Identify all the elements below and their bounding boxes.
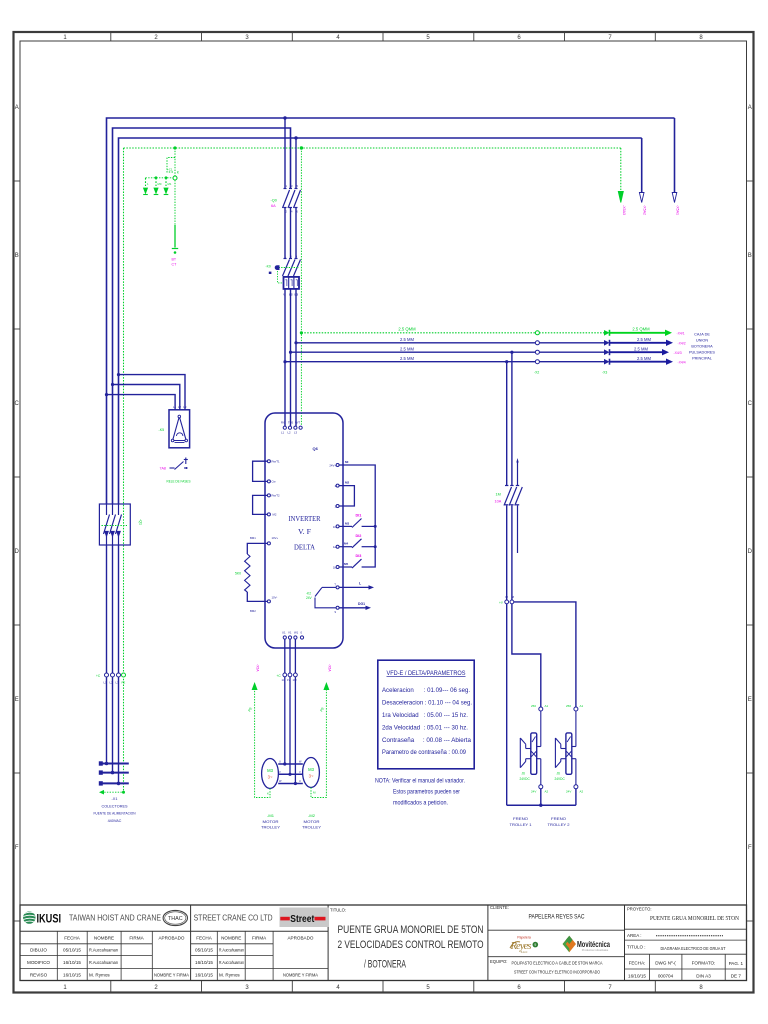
junction PE bus (300, 331, 303, 334)
ground branch horizontal (146, 177, 174, 179)
svg-text:Productos industriales: Productos industriales (582, 948, 609, 952)
svg-text:10V+: 10V+ (272, 536, 279, 540)
svg-text:FIRMA: FIRMA (252, 936, 267, 941)
label b (269, 272, 272, 274)
svg-text:EQUIPO:: EQUIPO: (490, 959, 507, 964)
wire L3 lower vertical (118, 545, 120, 783)
svg-text:REVISO: REVISO (30, 972, 48, 977)
svg-text:-X5A2: -X5A2 (643, 205, 647, 215)
svg-text:-M2: -M2 (308, 813, 316, 818)
svg-text:BOTONERA: BOTONERA (691, 345, 713, 349)
svg-text:2.5 MM: 2.5 MM (637, 337, 651, 342)
svg-text:Parametro de contraseña : 00.0: Parametro de contraseña : 00.09 (382, 749, 467, 756)
svg-text:FORMATO:: FORMATO: (692, 961, 716, 966)
junction node PE x175 (173, 146, 176, 149)
motor wire V lower (289, 677, 291, 775)
wire L1 right drop (674, 118, 676, 192)
resistor R1 zigzag (245, 554, 250, 592)
brake wire B lower (511, 506, 513, 601)
brake 2 wire bottom (575, 789, 577, 805)
contactor K0M coil symbol (275, 266, 279, 270)
svg-text:10V-: 10V- (272, 596, 278, 600)
connector circle brake A (505, 600, 509, 604)
triangle inside K5 (173, 417, 187, 441)
svg-text:10A: 10A (495, 500, 502, 504)
svg-text:F: F (748, 845, 752, 851)
overload relay F0 box (284, 277, 300, 289)
motor feed wire U (284, 639, 286, 673)
label motor M1 text (261, 813, 280, 830)
svg-text:VFD-E / DELTA/PARAMETROS: VFD-E / DELTA/PARAMETROS (387, 670, 466, 677)
svg-text:440VAC: 440VAC (108, 819, 122, 823)
svg-text:-X1: -X1 (112, 797, 118, 801)
wire V3 x296 (295, 138, 297, 189)
svg-text:-X4/2: -X4/2 (678, 342, 686, 346)
brake feed wire A (506, 362, 508, 485)
svg-text:L3: L3 (116, 681, 120, 685)
svg-text:-X5A1: -X5A1 (676, 205, 680, 215)
svg-text:L2: L2 (110, 681, 114, 685)
brake 1 connector bottom (539, 785, 543, 789)
connector circle node K (173, 176, 177, 180)
svg-text:CT: CT (172, 263, 178, 267)
junction dot ground branch 1 (155, 176, 158, 179)
THAC oval logo (163, 910, 187, 925)
svg-text:T: T (334, 583, 336, 587)
svg-text:1a: 1a (333, 545, 337, 549)
svg-text:FECHA:: FECHA: (629, 961, 646, 966)
wire PE green dashed bus (124, 147, 621, 149)
svg-text:V1: V1 (288, 631, 292, 635)
svg-text:M2: M2 (273, 513, 277, 517)
wire L2 lower vertical (112, 545, 114, 773)
svg-text:A: A (748, 105, 752, 111)
svg-text:APROBADO: APROBADO (287, 936, 313, 941)
svg-text:-X5A: -X5A (256, 664, 260, 672)
svg-text:M3: M3 (345, 521, 349, 525)
motor link U (278, 763, 303, 765)
K0M coil drop dashed (278, 271, 284, 283)
wire PE right drop (620, 148, 622, 190)
svg-text:DIAGRAMA ELECTRICO DE GRUA 5T: DIAGRAMA ELECTRICO DE GRUA 5T (661, 946, 726, 952)
svg-text:6A: 6A (271, 204, 276, 208)
svg-text:STREET CON TROLLEY ELETRICO IN: STREET CON TROLLEY ELETRICO INCORPORADO (514, 970, 600, 976)
junction dot tap L1 (105, 393, 108, 396)
svg-text:M3: M3 (267, 768, 273, 773)
collector bar 1 (102, 763, 129, 765)
svg-text:24VDC: 24VDC (555, 777, 566, 781)
svg-text:/ BOTONERA: / BOTONERA (364, 959, 406, 971)
svg-text:DI2: DI2 (356, 534, 362, 538)
svg-text:3~: 3~ (309, 774, 314, 779)
svg-text:Rw/T1: Rw/T1 (272, 460, 281, 464)
svg-text:16/10/15: 16/10/15 (195, 960, 213, 965)
svg-text:C: C (15, 401, 20, 407)
motor M1 PE wire (255, 689, 270, 798)
svg-text:FRENO: FRENO (513, 816, 528, 821)
svg-text:-X4/4: -X4/4 (678, 361, 686, 365)
table 2 texts (195, 936, 319, 978)
brake stub C lower (517, 506, 519, 554)
Q1 linkage dashed (102, 525, 128, 527)
svg-text:BT: BT (172, 258, 177, 262)
contactor K0M pole 1 (283, 259, 290, 277)
arrow L1 right (672, 193, 677, 203)
svg-text:AREA :: AREA : (627, 933, 642, 938)
relay contact below K5 (170, 458, 188, 470)
ground subcircuit dashed drop (174, 148, 176, 176)
svg-text:R.Auccahuaman: R.Auccahuaman (219, 948, 244, 953)
svg-text:IKUSI: IKUSI (37, 911, 62, 925)
svg-text:7A8: 7A8 (160, 467, 166, 471)
label X1 collector text (94, 797, 136, 823)
svg-text:Aceleracion : 01.09--- 06: Aceleracion : 01.09--- 06 seg. (382, 687, 470, 694)
svg-text:U: U (279, 760, 281, 764)
svg-text:RELE DE FASES: RELE DE FASES (167, 480, 191, 484)
svg-text:B: B (15, 253, 19, 259)
ground electrode 3 (164, 178, 169, 195)
svg-text:NOMBRE Y FIRMA: NOMBRE Y FIRMA (283, 972, 319, 977)
wire tap L3 (119, 375, 186, 410)
svg-text:Rw/T2: Rw/T2 (272, 494, 281, 498)
svg-text:MOTOR: MOTOR (263, 819, 279, 824)
svg-text:S.A.C: S.A.C (521, 950, 528, 954)
svg-text:U: U (284, 293, 286, 297)
jumper right pins 2-3 (339, 486, 354, 506)
svg-text:L1: L1 (104, 681, 108, 685)
svg-text:M0: M0 (158, 182, 162, 186)
svg-text:DI3: DI3 (356, 554, 362, 558)
svg-text:DIBUJO: DIBUJO (30, 948, 47, 953)
svg-text:C: C (748, 401, 753, 407)
svg-text:Papelera: Papelera (517, 936, 531, 940)
bus connector circles X2 (535, 331, 539, 335)
svg-text:U: U (299, 779, 301, 783)
svg-text:UNION: UNION (696, 339, 708, 343)
svg-text:R.Auccahuaman: R.Auccahuaman (219, 960, 244, 965)
inverter top pin circles (283, 426, 286, 429)
svg-text:COLECTORES: COLECTORES (102, 804, 128, 808)
svg-text:2.5 MM: 2.5 MM (400, 337, 414, 342)
junction dot tap L3 (117, 373, 120, 376)
svg-text:CAJA DE: CAJA DE (694, 333, 710, 337)
brake feed wire B (511, 352, 513, 485)
svg-text:FIRMA: FIRMA (129, 936, 144, 941)
svg-text:F: F (15, 845, 19, 851)
svg-text:Contraseña : 00.08 --- Abi: Contraseña : 00.08 --- Abierta (382, 737, 472, 744)
contact DI2 (339, 539, 375, 548)
svg-text:L2: L2 (178, 405, 182, 409)
brake return bus (507, 804, 576, 806)
wire L1 top bus (107, 118, 675, 504)
motor link W (278, 783, 303, 785)
svg-text:B: B (748, 253, 752, 259)
svg-text:INVERTER: INVERTER (289, 514, 321, 523)
wire L3 top bus (119, 138, 642, 504)
breaker Q0 pole 1 (283, 189, 290, 209)
Q1 pole 2 (110, 504, 116, 545)
wire L1 lower vertical (106, 545, 108, 764)
svg-text:L3: L3 (295, 293, 299, 297)
motor M2 PE wire (311, 689, 326, 798)
svg-text:TROLLEY: TROLLEY (261, 824, 280, 829)
wire V2 x290.5 (290, 187, 292, 190)
IKUSI logo (23, 911, 61, 925)
svg-text:-K2: -K2 (306, 592, 311, 596)
svg-text:-X3: -X3 (602, 371, 607, 375)
overload hooks (285, 280, 287, 286)
svg-text:24V+: 24V+ (329, 464, 336, 468)
svg-text:FRENO: FRENO (551, 816, 566, 821)
svg-text:DE 7: DE 7 (731, 974, 742, 979)
contactor K0M pole 2 (288, 259, 295, 277)
svg-text:+C: +C (96, 674, 101, 678)
svg-text:FECHA: FECHA (64, 936, 81, 941)
svg-text:POLIPASTO ELECTRICO A CABLE DE: POLIPASTO ELECTRICO A CABLE DE 5TON MARC… (512, 961, 604, 967)
svg-text:250: 250 (531, 704, 536, 708)
svg-text:M. Rymos: M. Rymos (219, 972, 240, 977)
brake coil Y2 (555, 711, 576, 785)
svg-text:24V: 24V (306, 596, 313, 600)
contact DI1 (339, 519, 375, 528)
svg-text:5K0: 5K0 (235, 572, 241, 576)
svg-text:05/10/15: 05/10/15 (63, 948, 81, 953)
svg-text:2.5 QMM: 2.5 QMM (398, 327, 416, 332)
breaker Q0 pole 3 (294, 189, 301, 209)
svg-text:24VDC: 24VDC (520, 777, 531, 781)
svg-text:TROLLEY: TROLLEY (302, 824, 321, 829)
ground long drop wire (174, 180, 176, 225)
contactor K1M pole 1 (504, 486, 512, 506)
svg-text:L2: L2 (288, 431, 292, 435)
svg-text:Q6: Q6 (313, 446, 319, 451)
wire L out (339, 586, 369, 588)
motor wire U lower (284, 677, 286, 764)
arrow PE right green (618, 192, 623, 203)
svg-text:Estos parametros pueden ser: Estos parametros pueden ser (393, 789, 461, 796)
svg-text:CLIENTE:: CLIENTE: (490, 905, 509, 910)
svg-text:2.5 MM: 2.5 MM (400, 346, 414, 351)
svg-text:MOTOR: MOTOR (304, 819, 320, 824)
svg-text:E: E (748, 697, 752, 703)
contact DI3 (339, 559, 361, 568)
svg-text:FECHA: FECHA (196, 936, 213, 941)
motor M2 (303, 758, 320, 788)
svg-text:PUENTE GRUA MONORIEL DE 5TON: PUENTE GRUA MONORIEL DE 5TON (650, 915, 739, 922)
junction dot ground branch 2 (165, 176, 168, 179)
svg-text:DELTA: DELTA (294, 543, 316, 552)
svg-text:DI1: DI1 (356, 514, 362, 518)
wire V1 x285 (284, 118, 286, 189)
svg-text:NOMBRE Y FIRMA: NOMBRE Y FIRMA (154, 972, 190, 977)
svg-text:A: A (15, 105, 19, 111)
svg-text:modificados a peticion.: modificados a peticion. (393, 800, 448, 807)
inverter right pins (336, 464, 339, 467)
svg-text:R.Auccahuaman: R.Auccahuaman (89, 948, 118, 953)
svg-text:16/10/15: 16/10/15 (195, 972, 213, 977)
Movitecnica logo (563, 936, 611, 952)
svg-text:-Q0: -Q0 (271, 199, 277, 203)
svg-text:Movitécnica: Movitécnica (577, 939, 610, 949)
motor link V (278, 773, 303, 775)
svg-text:M4: M4 (344, 542, 348, 546)
svg-text:MODIFICO: MODIFICO (27, 960, 50, 965)
junction node L1 x285 (283, 116, 286, 119)
brake coil Y1 (520, 711, 541, 785)
potentiometer wire bottom (247, 592, 267, 601)
svg-text:T0S: T0S (288, 421, 293, 425)
Street logo (280, 908, 330, 928)
motor feed wire W (294, 639, 296, 673)
svg-text:2.5 QMM: 2.5 QMM (632, 327, 650, 332)
svg-text:16/10/15: 16/10/15 (63, 972, 81, 977)
motor M1 (262, 759, 279, 789)
internal jumper L-DG1 (315, 587, 336, 607)
svg-text:A2: A2 (545, 790, 549, 794)
title block frame (20, 905, 747, 981)
svg-text:BM2: BM2 (250, 609, 256, 613)
svg-text:M5: M5 (344, 562, 348, 566)
svg-text:2da Velocidad : 05.01 --- 30: 2da Velocidad : 05.01 --- 30 hz. (382, 725, 468, 732)
svg-text:1ra Velocidad : 05.00 --- 15: 1ra Velocidad : 05.00 --- 15 hz. (382, 712, 468, 719)
svg-text:NOMBRE: NOMBRE (221, 936, 241, 941)
svg-text:9: 9 (534, 943, 536, 947)
svg-text:2.5 MM: 2.5 MM (637, 356, 651, 361)
svg-text:STREET CRANE CO LTD: STREET CRANE CO LTD (194, 914, 273, 923)
wire PE left vertical (123, 148, 125, 792)
svg-text:PAG. 1: PAG. 1 (729, 961, 744, 966)
svg-text:M2: M2 (345, 481, 349, 485)
svg-text:J6: J6 (557, 772, 561, 776)
svg-text:-K5: -K5 (159, 428, 165, 432)
inverter name text (289, 514, 321, 552)
svg-text:A1: A1 (545, 704, 549, 708)
brake 2 connector bottom (574, 785, 578, 789)
connector circles motor feed (283, 673, 287, 677)
main disconnect Q1 box (99, 504, 130, 545)
bus right segments with arrows (610, 332, 667, 334)
contactor K1M pole 2 (509, 486, 517, 506)
svg-text:J6: J6 (522, 772, 526, 776)
wire PE V x301.4 (300, 148, 302, 426)
svg-text:DIN A3: DIN A3 (696, 973, 711, 978)
svg-text:V: V (279, 770, 281, 774)
caja de union text (689, 333, 715, 361)
junction dot tap L2 (111, 383, 114, 386)
brake 2 connector top (574, 707, 578, 711)
inverter U1 body (265, 413, 343, 648)
svg-text:1b: 1b (333, 566, 337, 570)
svg-text:FUENTE DE ALIMENTACION: FUENTE DE ALIMENTACION (94, 812, 136, 816)
svg-text:PRINCIPAL: PRINCIPAL (692, 357, 712, 361)
svg-text:TITULO:: TITULO: (330, 908, 346, 913)
connector circles X0 row (105, 673, 109, 677)
svg-text:250: 250 (566, 704, 571, 708)
svg-text:E: E (15, 697, 19, 703)
svg-text:-M1: -M1 (267, 813, 275, 818)
brake branch 1 wire (512, 604, 541, 707)
svg-text:L2: L2 (289, 293, 293, 297)
table 1 texts (27, 936, 190, 978)
svg-text:PULSADORES: PULSADORES (689, 351, 715, 355)
ground subcircuit loop stub (167, 158, 175, 173)
svg-text:2.5 MM: 2.5 MM (634, 346, 648, 351)
svg-text:24V: 24V (531, 790, 536, 794)
svg-text:TAIWAN HOIST AND CRANE: TAIWAN HOIST AND CRANE (69, 914, 161, 923)
collector PE dashed bar (102, 791, 124, 793)
svg-text:16/10/15: 16/10/15 (628, 973, 646, 978)
svg-text:R.Auccahuaman: R.Auccahuaman (89, 960, 118, 965)
Q1 pole 1 (104, 504, 110, 545)
breaker Q0 pole 2 (288, 189, 295, 209)
svg-text:K: K (267, 792, 269, 796)
svg-text:-X5A: -X5A (328, 664, 332, 672)
label freno trolley 2 (548, 816, 571, 827)
collector bar 3 (102, 782, 129, 784)
wire L2 top bus (113, 128, 291, 504)
collector bar 2 (102, 772, 129, 774)
svg-text:PE: PE (122, 681, 126, 685)
svg-text:-X4/3: -X4/3 (674, 351, 682, 355)
svg-text:BM1: BM1 (250, 536, 256, 540)
brake feed stub C (517, 462, 519, 486)
svg-text:L3: L3 (183, 405, 187, 409)
junction dots collector (105, 762, 109, 766)
wire tap L1 (107, 395, 176, 410)
ground electrode 2 (154, 178, 159, 195)
svg-text:-Q1: -Q1 (139, 519, 143, 525)
svg-text:-X2: -X2 (534, 371, 539, 375)
contactor K1M pole 3 (515, 486, 523, 506)
potentiometer wire top (247, 543, 267, 554)
svg-text:PROYECTO:: PROYECTO: (627, 907, 652, 912)
svg-text:APROBADO: APROBADO (158, 936, 184, 941)
svg-text:L1: L1 (173, 405, 177, 409)
svg-text:NOMBRE: NOMBRE (94, 936, 114, 941)
ground terminal bottom (172, 248, 178, 250)
svg-text:-X4/1: -X4/1 (677, 332, 685, 336)
svg-text:TROLLEY 2: TROLLEY 2 (548, 822, 571, 827)
svg-text:D: D (15, 549, 20, 555)
svg-text:3~: 3~ (268, 775, 273, 780)
svg-text:PAPELERA REYES SAC: PAPELERA REYES SAC (529, 914, 585, 921)
motor wire W lower (294, 677, 296, 784)
svg-text:TROLLEY 1: TROLLEY 1 (510, 822, 533, 827)
brake 1 connector top (539, 707, 543, 711)
bus plug connectors X3 (604, 330, 610, 365)
svg-text:16/10/15: 16/10/15 (63, 960, 81, 965)
svg-text:A1: A1 (580, 704, 584, 708)
svg-text:D: D (748, 549, 753, 555)
svg-text:24V: 24V (566, 790, 571, 794)
svg-text:-X5A3: -X5A3 (622, 205, 626, 215)
connector circle brake B (510, 600, 514, 604)
contactor K0M linkage dashed (279, 267, 299, 269)
svg-text:2 VELOCIDADES CONTROL REMOTO: 2 VELOCIDADES CONTROL REMOTO (338, 939, 484, 951)
Q1 pole 3 (116, 504, 122, 545)
svg-text:DG1: DG1 (358, 602, 365, 606)
svg-text:M1: M1 (168, 182, 172, 186)
svg-text:1M: 1M (496, 493, 501, 497)
svg-text:R/0: R/0 (281, 421, 286, 425)
junction node L3 x296 (294, 136, 297, 139)
svg-text:V. F: V. F (298, 527, 311, 536)
arrow L3 right (639, 193, 644, 203)
inverter left pins (267, 460, 270, 463)
svg-text:05/10/15: 05/10/15 (195, 948, 213, 953)
svg-text:W1: W1 (294, 631, 299, 635)
control bus wire 2 (291, 351, 606, 353)
